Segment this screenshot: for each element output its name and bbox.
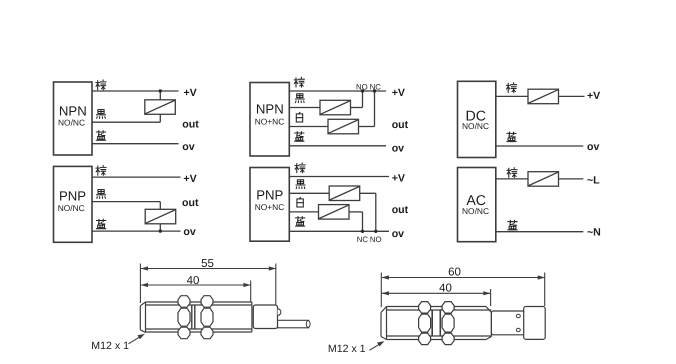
barrel outer top line bbox=[387, 306, 487, 308]
dimension arrow 40 left bbox=[382, 291, 389, 295]
svg-text:ov: ov bbox=[392, 228, 404, 240]
sensor block NPN NO+NC U3 bbox=[250, 83, 289, 157]
wire label blue char bbox=[295, 217, 304, 227]
wire blue to ov bbox=[289, 145, 386, 147]
svg-text:NO/NC: NO/NC bbox=[58, 203, 85, 213]
svg-text:NO: NO bbox=[370, 235, 382, 244]
wire label black char bbox=[97, 190, 106, 199]
nut gap line b bbox=[439, 310, 441, 336]
svg-text:NPN: NPN bbox=[256, 101, 284, 116]
svg-text:PNP: PNP bbox=[59, 188, 86, 203]
wire label black char bbox=[295, 94, 304, 103]
node NC junction dot bbox=[361, 230, 364, 233]
wire label black char bbox=[296, 180, 305, 189]
dimension line 40 bbox=[382, 292, 490, 294]
nut gap line a bbox=[431, 310, 433, 336]
svg-text:NO/NC: NO/NC bbox=[462, 121, 489, 131]
wire label brown char bbox=[295, 163, 305, 173]
barrel outer bottom line bbox=[146, 331, 252, 333]
wire brown to +V bbox=[289, 176, 389, 178]
barrel outer bottom line bbox=[387, 339, 487, 341]
wire brown to +V bbox=[92, 90, 179, 92]
barrel inner top line bbox=[146, 304, 252, 306]
wire label blue char bbox=[508, 220, 517, 230]
svg-text:55: 55 bbox=[201, 258, 214, 270]
node NO junction dot bbox=[361, 89, 364, 92]
wire black segment to load bbox=[289, 192, 329, 194]
dimension arrow 60 left bbox=[382, 275, 389, 279]
svg-text:out: out bbox=[392, 204, 409, 216]
indicator hole bottom bbox=[516, 328, 520, 331]
barrel front chamfer bottom bbox=[140, 330, 145, 333]
wire label blue char bbox=[507, 132, 516, 142]
sensor block PNP NO/NC U2 bbox=[54, 166, 93, 242]
node junction dot on +V bbox=[159, 89, 162, 92]
wire blue to ov bbox=[496, 145, 584, 147]
svg-text:+V: +V bbox=[587, 90, 600, 102]
load resistor RL1 bbox=[145, 100, 176, 115]
rear bump bbox=[278, 309, 281, 316]
sensor block NPN NO/NC U1 bbox=[54, 82, 93, 155]
svg-text:~L: ~L bbox=[587, 175, 600, 187]
barrel inner bottom line bbox=[146, 328, 252, 330]
svg-text:+V: +V bbox=[392, 87, 405, 99]
connector end bbox=[524, 307, 546, 340]
wire white segment after load bbox=[349, 211, 363, 213]
rear mid section bbox=[491, 311, 524, 335]
wire label brown char bbox=[96, 165, 106, 175]
load resistor RL3b bbox=[328, 119, 359, 134]
wire NO tap vertical bbox=[375, 193, 377, 231]
svg-text:NO/NC: NO/NC bbox=[58, 117, 85, 127]
wire white segment to load bbox=[289, 126, 328, 128]
svg-text:ov: ov bbox=[183, 226, 195, 238]
barrel front chamfer top bbox=[381, 307, 387, 313]
svg-text:+V: +V bbox=[184, 87, 197, 99]
wire black segment to load bbox=[289, 107, 320, 109]
hex nut N2 bbox=[201, 296, 213, 339]
sensor block DC NO/NC U5 bbox=[458, 81, 496, 157]
svg-text:NC: NC bbox=[370, 82, 382, 91]
barrel thread end line bbox=[251, 302, 253, 332]
barrel thread end edge bbox=[490, 313, 492, 337]
leader line left bbox=[129, 336, 142, 344]
svg-text:out: out bbox=[392, 119, 409, 131]
load resistor RL5 bbox=[528, 89, 559, 104]
barrel front chamfer bottom bbox=[381, 337, 387, 340]
barrel front face boundary line bbox=[145, 302, 147, 332]
svg-text:NC: NC bbox=[357, 235, 369, 244]
load resistor RL3a bbox=[320, 100, 351, 115]
cable bbox=[278, 320, 309, 328]
wire NC tap vertical bbox=[362, 212, 364, 231]
node junction dot on ov bbox=[159, 229, 162, 232]
nut gap line a bbox=[191, 305, 193, 329]
sensor block PNP NO+NC U4 bbox=[250, 168, 289, 242]
indicator hole top bbox=[516, 314, 520, 317]
wire NC tap vertical bbox=[374, 91, 376, 127]
dimension arrow 55 right bbox=[269, 266, 276, 270]
wire brown segment after load to ~L bbox=[559, 178, 584, 180]
svg-text:ov: ov bbox=[182, 141, 194, 153]
rear housing bbox=[253, 305, 277, 329]
wire load bottom vertical bbox=[159, 114, 161, 122]
dimension arrow 60 right bbox=[538, 275, 545, 279]
svg-text:NPN: NPN bbox=[59, 103, 87, 118]
dimension line 60 bbox=[382, 277, 545, 279]
wire label blue char bbox=[96, 131, 105, 141]
leader line right bbox=[369, 343, 381, 350]
wire brown segment to load bbox=[496, 178, 528, 180]
wire NO tap vertical bbox=[362, 91, 364, 108]
svg-text:out: out bbox=[182, 119, 199, 131]
dimension extension line right 60 bbox=[544, 273, 546, 307]
svg-text:ov: ov bbox=[392, 143, 404, 155]
wire black to out bbox=[92, 201, 160, 203]
sensor block AC NO/NC U6 bbox=[458, 168, 496, 242]
wire label blue char bbox=[96, 219, 105, 229]
hex nut N3 bbox=[419, 302, 431, 345]
dimension extension line right 40 bbox=[490, 289, 492, 306]
wire load top vertical bbox=[159, 202, 161, 210]
svg-text:NO/NC: NO/NC bbox=[462, 206, 489, 216]
wire label white char bbox=[297, 197, 303, 207]
hex nut N1 bbox=[178, 296, 190, 339]
dimension arrow 55 left bbox=[141, 266, 148, 270]
wire blue to ov bbox=[92, 230, 181, 232]
svg-text:M12 x 1: M12 x 1 bbox=[328, 343, 366, 355]
wire label brown char bbox=[96, 80, 106, 90]
barrel thread end chamfer top bbox=[486, 307, 491, 313]
wire brown to +V bbox=[289, 90, 386, 92]
node NO junction dot bbox=[374, 230, 377, 233]
wire brown to +V bbox=[92, 176, 181, 178]
dimension arrow 40 right bbox=[483, 291, 490, 295]
wire load top vertical bbox=[159, 91, 161, 100]
svg-text:60: 60 bbox=[448, 267, 461, 279]
wire label white char bbox=[296, 112, 302, 122]
svg-text:40: 40 bbox=[187, 275, 200, 287]
wire blue to ov bbox=[289, 230, 389, 232]
dimension extension line right 40 bbox=[250, 281, 252, 302]
wire label brown char bbox=[294, 77, 304, 87]
load resistor RL6 bbox=[528, 172, 559, 187]
wire brown segment to load bbox=[496, 95, 528, 97]
barrel front face edge bbox=[380, 313, 382, 337]
barrel front chamfer top bbox=[140, 302, 145, 306]
hex nut N4 bbox=[442, 302, 454, 345]
leader arrowhead right bbox=[377, 341, 384, 346]
barrel thread end chamfer bottom bbox=[486, 337, 491, 340]
dimension line 40 bbox=[141, 284, 250, 286]
svg-text:NO+NC: NO+NC bbox=[255, 202, 285, 212]
svg-text:NO+NC: NO+NC bbox=[255, 117, 285, 127]
dimension extension line right 55 bbox=[275, 264, 277, 305]
wire blue to ~N bbox=[496, 231, 584, 233]
dimension extension line left bbox=[380, 273, 382, 308]
dimension line 55 bbox=[141, 268, 276, 270]
barrel inner bottom line bbox=[387, 335, 492, 337]
wire white segment after load bbox=[359, 126, 375, 128]
svg-text:~N: ~N bbox=[587, 226, 601, 238]
wire label black char bbox=[96, 110, 105, 119]
wire black to out bbox=[92, 121, 160, 123]
barrel inner top line bbox=[387, 309, 492, 311]
wire load bottom vertical bbox=[159, 224, 161, 232]
dimension arrow 40 right bbox=[243, 283, 250, 287]
node NC junction dot bbox=[373, 89, 376, 92]
wire label blue char bbox=[295, 132, 304, 142]
load resistor RL2 bbox=[145, 209, 176, 224]
wire blue to ov bbox=[92, 143, 179, 145]
load resistor RL4a bbox=[329, 186, 360, 201]
svg-text:ov: ov bbox=[587, 141, 599, 153]
barrel front face boundary line bbox=[386, 307, 388, 340]
svg-text:NO: NO bbox=[356, 82, 368, 91]
svg-text:M12 x 1: M12 x 1 bbox=[91, 340, 129, 352]
dimension extension line left bbox=[139, 264, 141, 304]
svg-text:out: out bbox=[182, 197, 199, 209]
cable end ellipse bbox=[306, 321, 310, 328]
leader arrowhead left bbox=[137, 334, 144, 339]
svg-text:+V: +V bbox=[392, 172, 405, 184]
svg-text:40: 40 bbox=[439, 283, 452, 295]
wire black segment after load bbox=[360, 192, 376, 194]
wire black segment after load bbox=[351, 107, 363, 109]
DIAGRAM4 bbox=[250, 168, 389, 242]
svg-text:PNP: PNP bbox=[256, 188, 283, 203]
wire white segment to load bbox=[289, 211, 318, 213]
svg-text:+V: +V bbox=[183, 173, 196, 185]
wire label brown char bbox=[506, 83, 516, 93]
wire brown segment after load to +V bbox=[559, 95, 585, 97]
wire label brown char bbox=[507, 168, 517, 178]
nut gap line b bbox=[194, 305, 196, 329]
dimension arrow 40 left bbox=[141, 283, 148, 287]
barrel outer top line bbox=[146, 301, 252, 303]
barrel front face edge bbox=[139, 306, 141, 330]
load resistor RL4b bbox=[319, 205, 350, 220]
